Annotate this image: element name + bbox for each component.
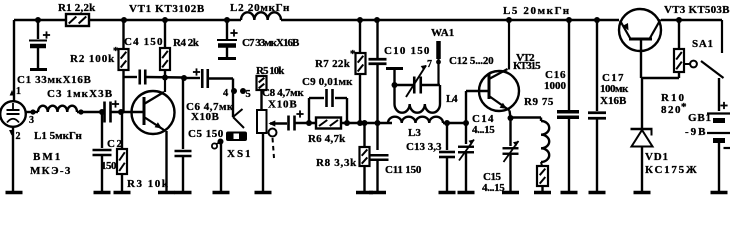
svg-text:1000: 1000 <box>544 80 567 92</box>
svg-text:R4 2k: R4 2k <box>173 37 200 49</box>
svg-text:SA1: SA1 <box>692 38 714 50</box>
svg-text:-9В: -9В <box>685 126 708 138</box>
svg-text:C13 3,3: C13 3,3 <box>406 141 442 153</box>
svg-text:7: 7 <box>427 59 432 70</box>
svg-text:GB1: GB1 <box>688 112 712 124</box>
svg-text:Х10В: Х10В <box>191 111 219 123</box>
svg-text:VT3 KT503B: VT3 KT503B <box>664 4 730 16</box>
svg-text:R9 75: R9 75 <box>524 96 554 108</box>
svg-text:R8 3,3k: R8 3,3k <box>316 157 357 169</box>
svg-text:4...15: 4...15 <box>472 124 495 136</box>
svg-text:Х16В: Х16В <box>600 95 627 107</box>
svg-text:VD1: VD1 <box>645 151 669 163</box>
svg-text:R1 2,2k: R1 2,2k <box>58 2 96 14</box>
svg-text:150: 150 <box>101 160 117 172</box>
svg-text:XS1: XS1 <box>227 148 253 160</box>
svg-text:WA1: WA1 <box>431 27 454 39</box>
svg-text:R6 4,7k: R6 4,7k <box>308 133 346 145</box>
svg-text:L5 20мкГн: L5 20мкГн <box>503 5 571 17</box>
svg-text:1: 1 <box>16 86 21 97</box>
svg-text:КТ315: КТ315 <box>513 60 541 72</box>
svg-text:C10 150: C10 150 <box>384 45 431 57</box>
svg-text:ВМ1: ВМ1 <box>33 151 62 163</box>
svg-text:100мк: 100мк <box>600 83 629 95</box>
svg-text:C4 150: C4 150 <box>124 36 164 48</box>
svg-text:C8 4,7мк: C8 4,7мк <box>262 87 304 99</box>
svg-text:C5 150: C5 150 <box>188 128 224 140</box>
svg-text:R2 100k: R2 100k <box>70 53 115 65</box>
svg-text:R3 10k: R3 10k <box>127 178 169 190</box>
svg-text:Х10В: Х10В <box>268 99 297 111</box>
svg-text:R7 22k: R7 22k <box>315 58 351 70</box>
svg-text:C11 150: C11 150 <box>385 164 422 176</box>
svg-text:4...15: 4...15 <box>482 182 505 194</box>
svg-text:VT1 KT3102B: VT1 KT3102B <box>129 3 205 15</box>
svg-text:5: 5 <box>246 89 251 100</box>
svg-text:C7 33мкХ16В: C7 33мкХ16В <box>242 37 300 49</box>
svg-text:C12 5...20: C12 5...20 <box>449 55 494 67</box>
svg-text:C9 0,01мк: C9 0,01мк <box>302 76 353 88</box>
svg-text:C3 1мкХ3В: C3 1мкХ3В <box>47 88 113 100</box>
svg-text:МКЭ-3: МКЭ-3 <box>30 165 72 177</box>
svg-text:3: 3 <box>29 115 34 126</box>
svg-text:КС175Ж: КС175Ж <box>645 164 699 176</box>
svg-text:R5 10k: R5 10k <box>256 65 285 77</box>
svg-text:L1 5мкГн: L1 5мкГн <box>34 130 82 142</box>
svg-text:2: 2 <box>16 131 21 142</box>
svg-text:820: 820 <box>661 104 682 116</box>
svg-text:C1 33мкХ16В: C1 33мкХ16В <box>17 74 91 86</box>
svg-text:L4: L4 <box>446 93 458 105</box>
svg-text:L3: L3 <box>408 127 421 139</box>
svg-text:L2 20мкГн: L2 20мкГн <box>230 2 290 14</box>
svg-text:C2: C2 <box>107 138 123 150</box>
